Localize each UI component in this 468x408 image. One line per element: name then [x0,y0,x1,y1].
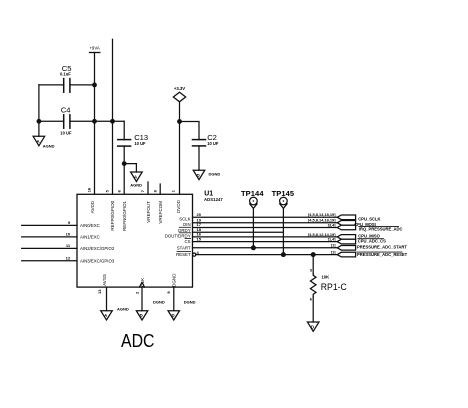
svg-text:C4: C4 [61,105,71,114]
svg-text:+3.3V: +3.3V [174,86,185,91]
svg-text:10: 10 [66,231,71,236]
svg-text:[1,4]: [1,4] [328,238,337,242]
svg-text:CS: CS [185,239,191,244]
svg-text:AGND: AGND [43,143,55,148]
wire DOUT/DRDY line pin 18 ends at TP145 vertical [193,231,284,233]
svg-text:REFP0/GPIO0: REFP0/GPIO0 [110,200,115,230]
power +9VA [89,45,100,52]
node junction rail REFP0 [110,119,115,124]
svg-text:[4,5,8,12,14,19]: [4,5,8,12,14,19] [308,233,336,237]
svg-text:A: A [104,313,107,318]
pin name DRDY (overbar) [178,227,190,233]
node junction C5/+9VA [92,83,97,88]
node junction +3.3V / C2 [177,119,182,124]
svg-text:D: D [197,173,200,178]
svg-text:0.1uF: 0.1uF [60,71,71,76]
off-page flag PRESSURE_ADC_RESET (overbar) [331,251,408,258]
wire DRDY line pin 17 [193,227,338,229]
svg-text:VREFOUT: VREFOUT [146,201,151,223]
svg-text:20: 20 [196,212,201,217]
wire branch to C2 [180,122,200,140]
svg-text:10 UF: 10 UF [60,130,72,135]
wire C13 to REFN0 pin [123,164,125,195]
node junction TP145/RESET [281,252,286,257]
ground DGND for DGND pin [168,299,196,320]
ground AGND left of C4 [33,121,55,148]
wire C4 right rail to C13 branch [70,120,124,122]
svg-text:AVDD: AVDD [90,200,95,213]
off-page flag CPU_SCLK [308,213,381,221]
node junction TP144/START [251,245,256,250]
svg-text:DVDD: DVDD [176,199,181,213]
svg-text:A: A [37,139,40,144]
svg-text:AGND: AGND [117,307,129,312]
off-page flag CPU_MOSI [308,219,376,227]
wire AVSS stub pin 13 [106,287,108,311]
wire START line pin 15 [193,241,338,243]
svg-text:10 UF: 10 UF [134,141,146,146]
wire +3.3V to DVDD pin [179,102,181,195]
svg-text:PRESSURE_ADC_RESET: PRESSURE_ADC_RESET [357,252,408,257]
wire AIN3 stub pin 12 [22,260,77,262]
svg-text:CPU_SCLK: CPU_SCLK [358,216,380,221]
capacitor C4 [60,105,72,135]
wire VREFCOM stub pin 8 [159,184,161,194]
pin name DOUT/DRDY (partial overbar) [165,233,191,239]
ground DGND for CLK [136,299,165,320]
wire TP line [193,247,338,249]
wire C5 right [70,84,95,86]
svg-text:AGND: AGND [130,183,142,188]
wire +9VA vertical to AVDD pin 16 [94,53,96,195]
power +3.3V [173,86,185,102]
svg-text:12: 12 [66,255,71,260]
wire AIN1 stub pin 10 [22,236,77,238]
svg-text:[4,5,8,14,18,19]: [4,5,8,14,18,19] [308,213,336,217]
op-amp U1 ADS1247 IC body [77,190,223,287]
node junction RP1/RESET [311,252,316,257]
svg-text:SCLK: SCLK [179,216,190,221]
wire AIN2 stub pin 11 [22,247,77,249]
wire left rail vertical [38,85,40,121]
off-page flag IRQ_PRESSURE_ADC (overbar) [328,223,403,231]
ground AGND for AVSS [101,307,129,321]
pin name CLK with clock mark [140,278,145,287]
wire C4 left [39,120,64,122]
pin name CS (overbar) [185,238,191,244]
svg-text:D: D [140,313,143,318]
node junction rail left [37,119,42,124]
svg-text:16: 16 [86,187,91,192]
svg-text:DGND: DGND [153,299,165,304]
wire CLK stub pin 2 [141,287,143,311]
wire SCLK line pin 20 [193,216,338,218]
pin name RESET (overbar) [176,251,191,257]
wire C5 left [39,84,64,86]
wire REFP0 vertical [112,39,114,194]
svg-text:DGND: DGND [172,273,177,287]
off-page flag CPU_ADC_CS (overbar) [328,238,386,244]
svg-text:DOUT/DRDY: DOUT/DRDY [165,233,191,238]
svg-text:AIN1/EXC: AIN1/EXC [80,235,100,240]
svg-text:VREFCOM: VREFCOM [158,201,163,224]
svg-text:AVSS: AVSS [102,274,107,286]
svg-text:REFN0/GPIO1: REFN0/GPIO1 [122,200,127,231]
svg-text:DGND: DGND [184,299,196,304]
svg-text:IRQ_PRESSURE_ADC: IRQ_PRESSURE_ADC [359,227,403,232]
node junction C13 bottom [122,161,127,166]
ground DGND for RP1-C [307,322,319,331]
svg-text:RP1-C: RP1-C [321,282,347,293]
svg-text:AIN0/EXC: AIN0/EXC [80,223,100,228]
test point TP144 [241,189,264,248]
svg-text:DRDY: DRDY [178,228,190,233]
svg-text:[1]: [1] [331,251,336,255]
svg-text:RESET: RESET [176,252,191,257]
capacitor C13 [118,121,148,163]
svg-text:TP144: TP144 [241,189,264,198]
resistor RP1-C 10K [310,255,347,322]
svg-text:ADS1247: ADS1247 [204,197,223,202]
wire DIN line pin 19 [193,222,338,224]
svg-text:[4,5,8,14,18,19]: [4,5,8,14,18,19] [308,219,336,223]
off-page flag PRESSURE_ADC_START [331,244,407,250]
off-page flag CPU_MISO [308,233,381,239]
ground AGND for C13 [124,164,142,188]
svg-text:TP145: TP145 [272,189,295,198]
node junction rail +9VA [92,119,97,124]
svg-text:[3,4]: [3,4] [328,223,337,227]
wire CS line pin 16 [193,236,338,238]
test point TP145 [272,189,295,255]
svg-text:+9VA: +9VA [89,45,100,50]
ground DGND for C2 [193,170,220,180]
svg-text:[1]: [1] [331,244,336,248]
svg-text:A: A [134,175,137,180]
svg-text:10 UF: 10 UF [207,141,219,146]
svg-text:DGND: DGND [209,171,221,176]
wire VREFOUT stub pin 7 [147,182,149,194]
capacitor C2 [193,133,219,170]
svg-text:13: 13 [97,289,102,294]
svg-text:11: 11 [66,243,71,248]
svg-text:START: START [177,246,191,251]
svg-text:D: D [311,325,314,330]
svg-text:AIN2/EXC/GPIO2: AIN2/EXC/GPIO2 [80,246,115,251]
svg-text:D: D [171,313,174,318]
wire RESET line pin 4 with inversion bubble [193,250,338,256]
svg-text:CPU_ADC_CS: CPU_ADC_CS [358,239,386,244]
capacitor C5 [60,64,72,92]
svg-text:ADC: ADC [121,331,155,351]
svg-text:AIN3/EXC/GPIO3: AIN3/EXC/GPIO3 [80,259,115,264]
svg-text:15: 15 [196,236,201,241]
svg-text:PRESSURE_ADC_START: PRESSURE_ADC_START [357,245,407,250]
wire DGND stub pin 9 [173,287,175,311]
svg-text:DIN: DIN [183,222,190,227]
wire AIN0 stub pin 9 [22,224,77,226]
svg-text:10K: 10K [322,275,330,280]
